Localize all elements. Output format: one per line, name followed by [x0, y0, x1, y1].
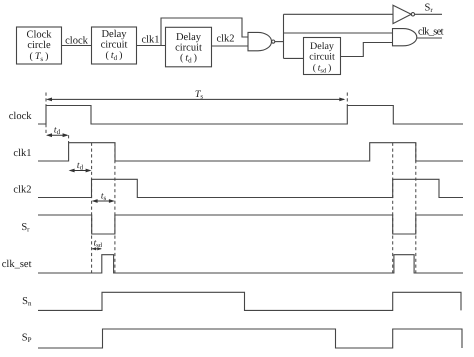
wire bus mid to G2 upper input: [284, 32, 393, 34]
waveform clock: [38, 106, 463, 125]
svg-text:clk_set: clk_set: [2, 259, 32, 270]
dashed guide at clock rise 1: [45, 93, 47, 136]
bubble at U5 output: [411, 13, 414, 16]
annotation arrow td 2: [69, 169, 92, 173]
dashed guide at clk1 fall 2: [415, 143, 417, 273]
dashed guide at clk2 rise 2: [392, 143, 394, 273]
dashed guide at clk1 fall 1: [114, 143, 116, 273]
svg-text:circuit: circuit: [309, 52, 335, 63]
inverter U5: [393, 5, 411, 23]
svg-text:Sn: Sn: [22, 296, 32, 308]
wire U4 output to G2 lower input: [341, 43, 393, 57]
dashed guide at clk2 rise 1: [91, 143, 93, 273]
block U1 clock circle (Ts): [17, 27, 62, 64]
wire G2 output clk_set: [417, 37, 442, 39]
label U1 text: [26, 30, 52, 63]
svg-text:SP: SP: [22, 333, 32, 345]
svg-text:Sr: Sr: [425, 3, 434, 15]
dashed guide at clk1 rise 1: [68, 135, 70, 143]
svg-text:ts: ts: [101, 192, 107, 203]
wire bus bottom to U4 input: [284, 57, 304, 59]
label U2 text: [101, 29, 128, 62]
svg-text:Delay: Delay: [176, 32, 202, 43]
svg-text:clk2: clk2: [13, 184, 31, 195]
bubble at G1 output: [272, 40, 275, 43]
annotation arrow Ts: [46, 98, 345, 102]
waveform clk2: [38, 179, 463, 197]
waveform clk_set: [38, 255, 463, 273]
waveform Sn: [38, 292, 461, 310]
label U3 text: [175, 32, 202, 64]
waveform clk1: [38, 143, 463, 161]
wire clk2: U3 out to AND gate G1 lower input: [212, 45, 249, 47]
svg-text:circuit: circuit: [101, 39, 128, 50]
svg-text:( tsd ): ( tsd ): [313, 63, 332, 74]
annotation arrow td 1: [46, 133, 69, 137]
wire clock: U1 out to U2 in: [62, 45, 92, 47]
annotation arrow tsd: [92, 247, 102, 250]
svg-text:td: td: [54, 126, 61, 137]
dashed guide at clock rise 2: [346, 93, 348, 106]
svg-text:clock: clock: [9, 111, 32, 122]
svg-text:clk1: clk1: [141, 35, 159, 46]
svg-text:Sr: Sr: [21, 222, 30, 234]
AND gate G1: [248, 32, 272, 50]
AND gate G2: [393, 29, 417, 46]
dashed guide lines: [46, 93, 416, 274]
wire bus top to inverter input: [284, 13, 394, 15]
block U4 delay circuit (tsd): [304, 38, 341, 75]
svg-text:td: td: [77, 161, 84, 172]
annotation arrow ts: [92, 199, 115, 203]
wire clk1: U2 out to U3 in: [137, 45, 166, 47]
wire clk1 tap over the top to G1 upper input: [161, 18, 248, 46]
svg-text:( td ): ( td ): [106, 50, 123, 62]
svg-text:( td ): ( td ): [180, 52, 197, 64]
svg-text:Delay: Delay: [310, 41, 334, 52]
waveform Sr: [38, 215, 463, 234]
svg-text:Clock: Clock: [26, 30, 52, 41]
svg-text:clk2: clk2: [216, 34, 234, 45]
svg-text:( Ts ): ( Ts ): [30, 51, 49, 63]
wire G1 output to bus node: [275, 41, 284, 43]
wire U5 output Sr: [415, 13, 442, 15]
block U3 delay circuit (td): [166, 27, 212, 67]
svg-text:clk1: clk1: [13, 148, 31, 159]
block U2 delay circuit (td): [92, 27, 137, 64]
svg-text:circle: circle: [27, 40, 51, 51]
label U4 text: [309, 41, 335, 74]
svg-text:Ts: Ts: [195, 89, 204, 101]
waveform SP: [38, 329, 462, 348]
svg-text:tsd: tsd: [94, 239, 103, 250]
svg-text:clock: clock: [65, 36, 88, 47]
svg-text:clk_set: clk_set: [418, 27, 444, 38]
wire vertical bus at node A: [283, 14, 285, 58]
